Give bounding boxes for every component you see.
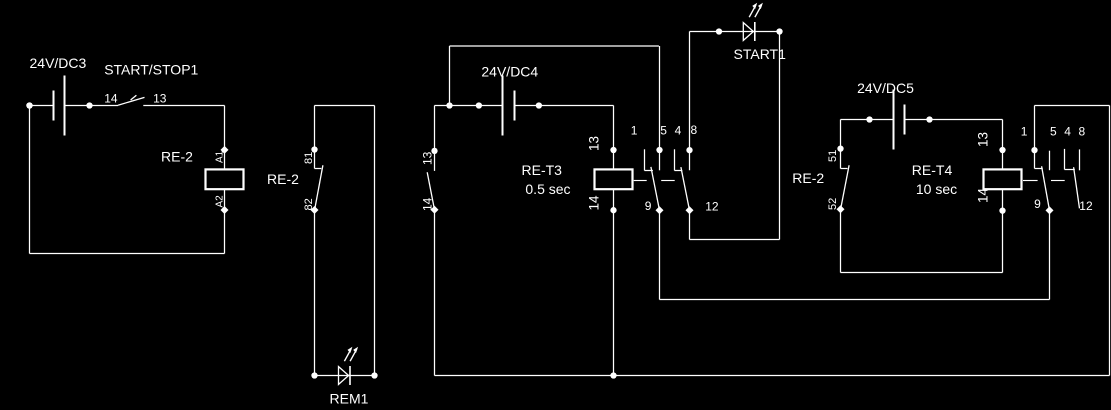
- svg-text:14: 14: [586, 195, 601, 211]
- svg-text:START/STOP1: START/STOP1: [104, 61, 198, 77]
- svg-text:52: 52: [827, 198, 839, 210]
- svg-text:8: 8: [1079, 125, 1086, 139]
- svg-text:14: 14: [104, 92, 118, 106]
- svg-text:0.5 sec: 0.5 sec: [525, 181, 570, 197]
- svg-text:5: 5: [1050, 125, 1057, 139]
- svg-text:81: 81: [303, 152, 315, 164]
- svg-text:REM1: REM1: [330, 390, 369, 406]
- svg-text:13: 13: [975, 132, 990, 147]
- svg-text:RE-T4: RE-T4: [912, 162, 953, 178]
- svg-text:9: 9: [645, 199, 652, 213]
- svg-text:12: 12: [705, 199, 719, 213]
- svg-text:12: 12: [1079, 199, 1093, 213]
- svg-text:8: 8: [691, 123, 698, 137]
- svg-text:1: 1: [631, 124, 638, 138]
- svg-text:14: 14: [975, 187, 990, 203]
- svg-text:13: 13: [421, 151, 435, 165]
- svg-text:82: 82: [303, 198, 315, 210]
- svg-text:START1: START1: [734, 46, 787, 62]
- svg-text:14: 14: [421, 197, 435, 211]
- svg-text:4: 4: [1064, 125, 1071, 139]
- svg-text:5: 5: [660, 124, 667, 138]
- svg-text:1: 1: [1021, 125, 1028, 139]
- svg-text:24V/DC5: 24V/DC5: [857, 80, 914, 96]
- svg-text:51: 51: [827, 150, 839, 162]
- svg-text:A1: A1: [214, 150, 225, 163]
- svg-text:10 sec: 10 sec: [916, 181, 957, 197]
- svg-text:RE-2: RE-2: [267, 171, 299, 187]
- svg-text:A2: A2: [214, 195, 225, 208]
- svg-text:4: 4: [675, 124, 682, 138]
- svg-text:9: 9: [1034, 197, 1041, 211]
- svg-text:13: 13: [586, 136, 601, 151]
- svg-text:24V/DC4: 24V/DC4: [481, 64, 538, 80]
- svg-text:RE-T3: RE-T3: [522, 162, 563, 178]
- svg-text:24V/DC3: 24V/DC3: [30, 55, 87, 71]
- svg-text:13: 13: [153, 92, 167, 106]
- svg-text:RE-2: RE-2: [161, 149, 193, 165]
- svg-text:RE-2: RE-2: [792, 170, 824, 186]
